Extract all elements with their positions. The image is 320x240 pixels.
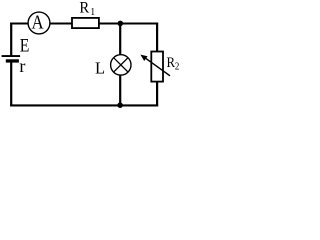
svg-text:r: r: [19, 56, 25, 76]
rheostat R2 body: [151, 52, 163, 82]
battery E negative plate (short thick): [6, 59, 19, 62]
node top junction: [118, 21, 124, 27]
label R2: [167, 55, 180, 73]
ammeter A: [28, 11, 50, 34]
wire left lower (battery - plate down to bottom-left corner): [10, 61, 12, 107]
rheostat R2 arrowhead: [140, 55, 147, 61]
node bottom junction: [117, 102, 123, 108]
label R1: [79, 0, 95, 18]
svg-text:E: E: [20, 35, 30, 55]
svg-text:L: L: [95, 59, 105, 78]
resistor R1: [72, 18, 99, 28]
wire right lower (R2 down to bottom-right corner): [156, 81, 158, 106]
battery E positive plate (long thin): [2, 55, 21, 57]
svg-text:R: R: [79, 0, 89, 17]
svg-text:2: 2: [175, 61, 180, 73]
label E: [20, 35, 30, 55]
wire right upper (top-right corner down to R2): [156, 23, 158, 53]
wire bottom rail: [10, 104, 158, 106]
wire middle branch (top junction to bottom junction, through lamp): [119, 24, 121, 106]
rheostat R2 arrow shaft: [146, 58, 171, 76]
svg-text:A: A: [32, 11, 45, 34]
wire top rail: [10, 23, 158, 25]
svg-text:1: 1: [90, 6, 95, 18]
lamp L: [111, 55, 131, 75]
wire left upper (top-left corner down to battery + plate): [10, 23, 12, 57]
